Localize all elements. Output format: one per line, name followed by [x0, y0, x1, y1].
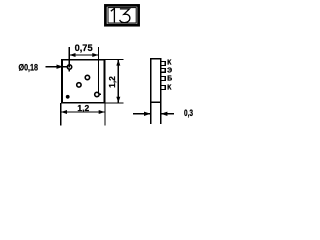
- package body top view: [62, 60, 105, 103]
- dim 0,75 right extension line: [98, 47, 100, 94]
- figure number box outer: [105, 5, 138, 25]
- dim 1,2 bottom line: [61, 111, 105, 113]
- hole 4 side tick: [99, 93, 101, 95]
- hole 2 middle-upper: [85, 75, 89, 79]
- pin K bottom: [161, 86, 166, 90]
- svg-text:0,3: 0,3: [184, 108, 193, 118]
- svg-text:0,75: 0,75: [75, 43, 93, 53]
- dim 0,3 right tail line: [161, 113, 174, 115]
- figure number box inner: [108, 8, 136, 23]
- hole 3 middle-lower: [77, 83, 81, 87]
- dim 0,75 left extension line: [68, 47, 70, 67]
- dim 0,3 left arrow: [144, 112, 151, 116]
- svg-text:Э: Э: [167, 67, 172, 74]
- hole 1 extension stub below: [68, 69, 70, 71]
- dim 0,75 right arrow: [92, 53, 98, 57]
- svg-text:Б: Б: [167, 76, 172, 83]
- dim 0,3 left tail line: [133, 113, 151, 115]
- svg-text:К: К: [167, 59, 172, 66]
- dim 1,2 bottom right arrow: [99, 110, 105, 114]
- dim 0,75 left arrow: [70, 53, 76, 57]
- dim 1,2 bottom left arrow: [61, 110, 67, 114]
- figure number text 13: [111, 8, 130, 22]
- dim 1,2 bottom left extension line: [60, 103, 62, 125]
- svg-text:1,2: 1,2: [77, 103, 89, 113]
- hole diameter leader line: [45, 66, 67, 68]
- dim 0,3 right arrow: [161, 112, 168, 116]
- side view body: [151, 59, 161, 103]
- dim 1,2 right bottom arrow: [116, 97, 120, 103]
- hole 1 top-left: [67, 65, 71, 69]
- svg-text:К: К: [167, 85, 172, 92]
- pin E: [161, 68, 166, 72]
- dim 0,3 left extension line: [150, 102, 152, 124]
- dim 0,3 right extension line: [160, 102, 162, 124]
- dim 1,2 right top arrow: [116, 60, 120, 66]
- orientation dot bottom-left: [66, 95, 70, 99]
- hole 4 bottom-right: [95, 92, 99, 96]
- dim 1,2 right top extension line: [105, 58, 124, 60]
- pin B: [161, 77, 166, 81]
- dim 0,75 line: [69, 54, 98, 56]
- pin K top: [161, 62, 166, 66]
- dim 1,2 right bottom extension line: [105, 102, 124, 104]
- dim 1,2 right line: [117, 59, 119, 103]
- dim 1,2 bottom right extension line: [104, 103, 106, 125]
- svg-text:1,2: 1,2: [107, 76, 117, 88]
- svg-text:Ø0,18: Ø0,18: [19, 62, 39, 72]
- hole diameter leader arrow: [57, 65, 64, 69]
